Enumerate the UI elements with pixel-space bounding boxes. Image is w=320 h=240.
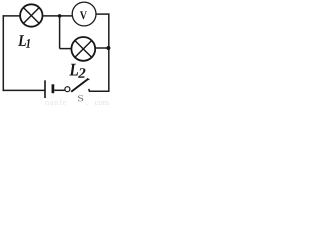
wire: node A down bbox=[59, 16, 61, 49]
wire: L2 right to right rail bbox=[95, 47, 109, 49]
lamp L2 circle bbox=[71, 37, 95, 61]
lamp L2 cross bbox=[75, 41, 91, 57]
voltmeter V letter bbox=[80, 11, 87, 19]
voltmeter U circle bbox=[72, 2, 96, 26]
wire: bottom left horizontal to battery bbox=[3, 89, 45, 91]
lamp L1 cross bbox=[24, 8, 39, 23]
battery short plate (negative) bbox=[52, 84, 55, 93]
switch fixed contact tick bbox=[88, 89, 90, 91]
svg-text:com: com bbox=[95, 97, 110, 106]
wire: to L2 left bbox=[60, 48, 72, 50]
label L2 bbox=[69, 64, 78, 76]
wire: battery to switch bbox=[54, 89, 64, 91]
svg-text:.: . bbox=[86, 97, 88, 106]
wire: left rail vertical bbox=[2, 15, 4, 91]
wire: switch to bottom-right corner bbox=[89, 90, 110, 92]
label S (switch) bbox=[78, 95, 83, 101]
wire: right rail vertical bbox=[108, 13, 110, 92]
switch lever tip serif bbox=[87, 79, 90, 80]
wire: voltmeter right to right rail bbox=[96, 13, 109, 15]
switch pivot circle bbox=[65, 87, 70, 92]
lamp L1 circle bbox=[20, 4, 42, 26]
svg-text:nanfe: nanfe bbox=[45, 97, 67, 106]
background bbox=[0, 0, 113, 106]
switch lever bbox=[71, 79, 88, 92]
wire: top-left horizontal from left rail to L1 bbox=[3, 15, 21, 17]
battery long plate (positive) bbox=[44, 80, 46, 98]
node A junction dot bbox=[58, 14, 62, 18]
junction dot at right rail bbox=[106, 46, 110, 50]
wire: L1 to voltmeter (through node A) bbox=[42, 15, 72, 17]
label L1 bbox=[18, 35, 26, 46]
